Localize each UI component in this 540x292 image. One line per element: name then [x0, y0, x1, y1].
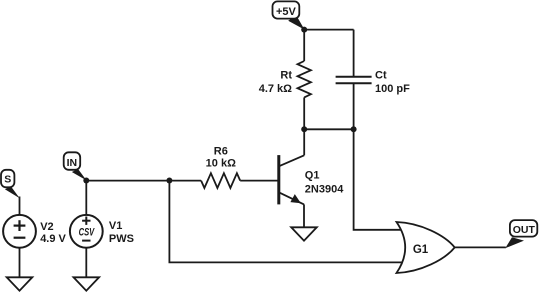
node label OUT [505, 220, 537, 248]
junction dot IN wire / down wire [166, 178, 172, 184]
svg-text:S: S [4, 174, 11, 186]
ground under V2 [7, 277, 33, 290]
svg-text:+5V: +5V [276, 6, 297, 18]
node label IN [64, 152, 87, 180]
svg-text:R6: R6 [214, 145, 228, 157]
svg-text:Rt: Rt [280, 70, 292, 82]
wire node horizontal between branches [304, 128, 353, 130]
node label S [1, 170, 20, 199]
node junction dot left [301, 126, 307, 132]
node junction dot right [351, 126, 357, 132]
wire G1 output [455, 246, 506, 248]
wire IN node down to V1 [85, 181, 87, 216]
wire S down to V2 [19, 197, 21, 216]
svg-text:OUT: OUT [513, 224, 536, 236]
svg-text:Ct: Ct [375, 70, 387, 82]
svg-text:G1: G1 [413, 244, 429, 256]
junction dot IN node [83, 178, 89, 184]
resistor Rt [298, 61, 311, 97]
svg-text:IN: IN [67, 157, 78, 169]
svg-text:PWS: PWS [109, 233, 134, 245]
svg-text:V1: V1 [109, 220, 122, 232]
wire V1 to ground [85, 248, 87, 278]
transistor Q1 2N3904 [279, 155, 304, 227]
wire Rt bottom to collector node [303, 97, 305, 155]
svg-text:4.9 V: 4.9 V [40, 233, 66, 245]
svg-text:4.7 kΩ: 4.7 kΩ [259, 83, 292, 95]
junction dot +5V node [301, 27, 307, 33]
or-gate G1 [397, 222, 455, 273]
wire R6 to base [240, 180, 278, 182]
capacitor Ct [336, 76, 372, 78]
ground under Q1 emitter [291, 227, 317, 240]
wire cap bottom plate to node [353, 83, 355, 129]
wire down to OR gate bottom input [169, 181, 401, 263]
svg-text:V2: V2 [40, 221, 53, 233]
ground under V1 [74, 277, 100, 290]
resistor R6 [201, 173, 240, 188]
svg-text:100 pF: 100 pF [375, 83, 410, 95]
power label +5V [273, 1, 305, 29]
voltage source V1 [70, 215, 103, 248]
svg-text:CSV: CSV [79, 227, 96, 239]
voltage source V2 [3, 215, 36, 248]
wire +5V down to Rt top [303, 30, 305, 61]
wire top horizontal +5V node to cap branch [304, 29, 353, 31]
svg-text:2N3904: 2N3904 [305, 184, 344, 196]
wire cap branch down to top plate [353, 30, 355, 77]
wire V2 to ground [19, 248, 21, 278]
wire cap branch down to OR gate top input [354, 129, 402, 230]
svg-text:10 kΩ: 10 kΩ [206, 157, 236, 169]
wire IN node to R6 [86, 180, 201, 182]
svg-text:Q1: Q1 [305, 170, 320, 182]
